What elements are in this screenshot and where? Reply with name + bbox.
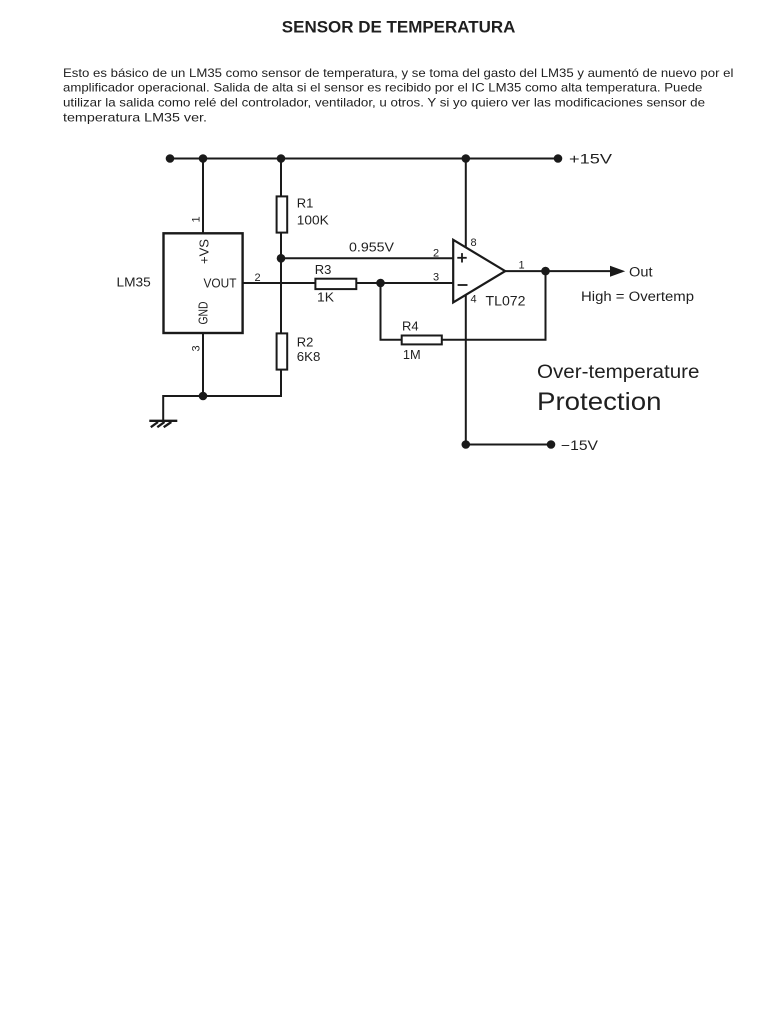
svg-text:0.955V: 0.955V (349, 240, 394, 255)
wire -15V rail (466, 444, 551, 446)
svg-text:LM35: LM35 (117, 275, 151, 290)
wire LM35 pin1 to +15V rail (202, 159, 204, 234)
junction dot on +15V rail left terminal (166, 154, 175, 163)
op-amp non-inverting + symbol (457, 253, 466, 262)
wire op-amp output (505, 270, 610, 272)
junction op-amp pin4 to -15V rail (462, 440, 471, 449)
svg-text:+15V: +15V (569, 152, 612, 167)
wire LM35 pin3 to ground node (202, 333, 204, 396)
svg-text:2: 2 (433, 248, 439, 260)
svg-text:R4: R4 (402, 319, 419, 334)
svg-text:amplificador operacional. Sali: amplificador operacional. Salida de alta… (63, 81, 703, 95)
resistor R2 (277, 333, 288, 369)
svg-text:6K8: 6K8 (297, 349, 321, 364)
junction R3 output to inverting input (376, 279, 385, 288)
svg-text:R3: R3 (315, 262, 332, 277)
svg-text:+VS: +VS (197, 239, 212, 264)
svg-text:1: 1 (519, 260, 525, 272)
op-amp U1 TL072 (453, 240, 505, 303)
svg-text:100K: 100K (297, 213, 329, 228)
wire op-amp supply vertical pin8 to pin4 to -15V (465, 159, 467, 445)
svg-text:SENSOR DE TEMPERATURA: SENSOR DE TEMPERATURA (282, 19, 516, 37)
svg-text:GND: GND (196, 302, 211, 325)
svg-text:Protection: Protection (537, 388, 662, 416)
svg-text:−15V: −15V (561, 438, 598, 453)
junction R1 top to +15V rail (277, 154, 286, 163)
wire R1-R2 divider vertical (280, 159, 282, 397)
svg-text:Out: Out (629, 265, 653, 280)
svg-text:utilizar la salida como relé d: utilizar la salida como relé del control… (63, 96, 705, 110)
wire +15V top rail (170, 158, 558, 160)
svg-text:R2: R2 (297, 335, 314, 350)
svg-text:2: 2 (255, 272, 261, 284)
svg-text:Esto es básico de un LM35 como: Esto es básico de un LM35 como sensor de… (63, 66, 733, 80)
IC LM35 body (164, 233, 243, 333)
resistor R4 (402, 336, 442, 345)
op-amp inverting - symbol (458, 284, 468, 286)
svg-text:High = Overtemp: High = Overtemp (581, 289, 694, 304)
svg-text:temperatura LM35 ver.: temperatura LM35 ver. (63, 111, 207, 125)
svg-text:3: 3 (433, 272, 439, 284)
svg-text:3: 3 (191, 345, 203, 351)
ground symbol (149, 421, 177, 427)
junction divider node 0.955V (277, 254, 286, 263)
wire LM35 VOUT to op-amp inverting input (243, 282, 454, 284)
svg-text:8: 8 (471, 237, 477, 249)
svg-text:1K: 1K (317, 290, 334, 305)
svg-text:1: 1 (191, 216, 203, 222)
resistor R3 (315, 279, 356, 289)
junction op-amp pin8 to +15V rail (462, 154, 471, 163)
svg-text:1M: 1M (403, 347, 421, 362)
out arrow head (610, 266, 625, 277)
junction LM35 pin3 to ground wire (199, 392, 208, 401)
svg-text:4: 4 (471, 294, 477, 306)
junction op-amp output node (541, 267, 550, 276)
node +15V terminal dot (554, 154, 563, 163)
node -15V terminal dot (547, 440, 556, 449)
svg-text:R1: R1 (297, 196, 314, 211)
resistor R1 (277, 196, 288, 232)
wire R3 node down to R4 left (381, 283, 402, 340)
svg-text:TL072: TL072 (486, 294, 526, 309)
wire R4 right to output node (442, 271, 546, 340)
junction pin1 wire to +15V rail (199, 154, 208, 163)
svg-text:VOUT: VOUT (204, 276, 237, 291)
wire 0.955V node to op-amp non-inverting input (281, 257, 453, 259)
svg-text:Over-temperature: Over-temperature (537, 362, 700, 383)
wire ground bottom run (163, 396, 281, 421)
